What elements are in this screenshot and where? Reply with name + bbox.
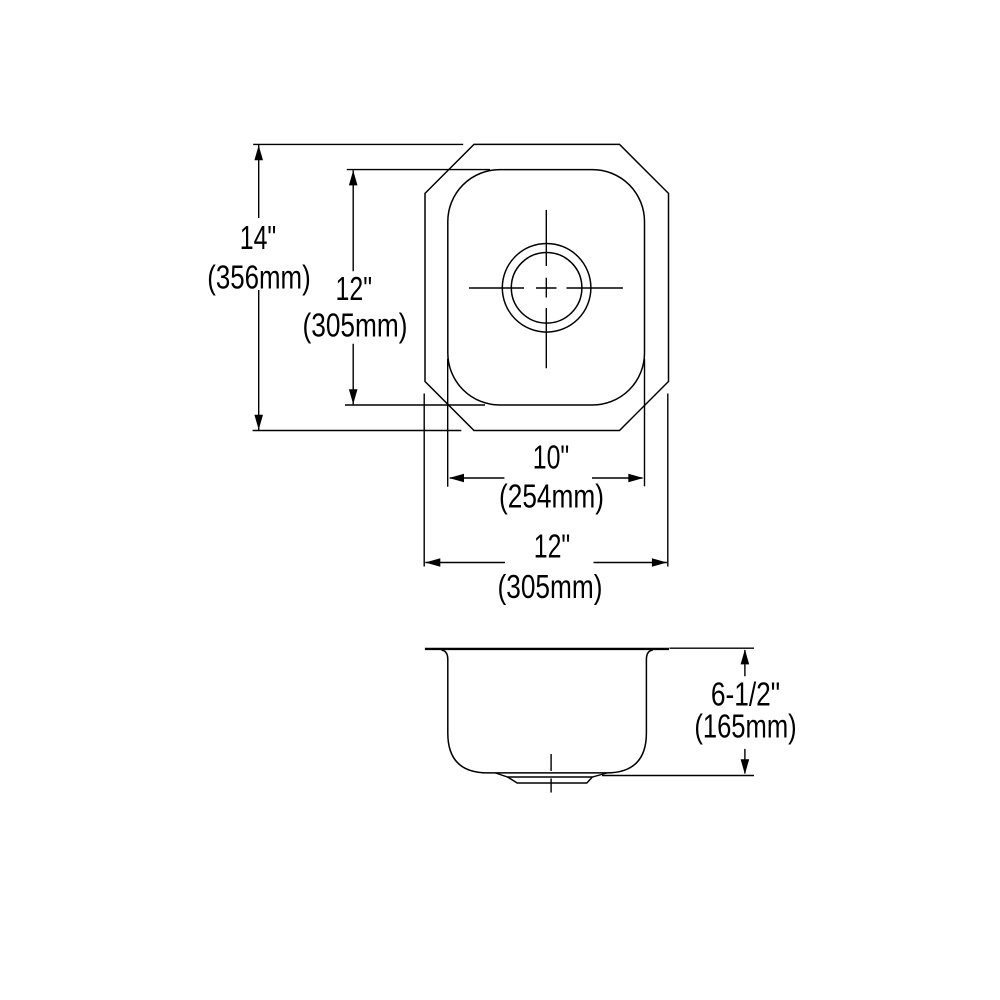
svg-text:12": 12" [336,270,373,307]
drain lip lower trapezoid (side view) [508,777,593,783]
drain outer circle [502,243,591,332]
drain vertical centerline [545,210,547,368]
12in bottom right extension line [667,394,669,567]
12in vertical top extension line [347,169,490,171]
12in bottom left arrowhead [425,558,440,567]
drain inner circle [511,252,582,323]
svg-text:(356mm): (356mm) [207,259,310,296]
svg-text:(165mm): (165mm) [694,708,796,745]
svg-text:14": 14" [240,219,277,256]
10in right arrowhead [628,474,643,483]
6-1/2in up arrowhead [741,649,750,664]
12in vertical dimension line [352,170,354,404]
side view bowl profile [442,650,653,773]
14in bottom extension line [253,430,462,432]
12in bottom dimension line [425,562,667,564]
10in left arrowhead [449,474,464,483]
svg-text:(305mm): (305mm) [303,306,408,343]
side view flange thick line [425,648,669,650]
6-1/2in dimension line [744,650,746,774]
12in bottom right arrowhead [652,558,667,567]
14in top extension line [253,143,463,145]
drain lip upper trapezoid (side view) [496,773,607,777]
drain centerline (side view) [550,754,552,793]
svg-text:10": 10" [533,438,570,475]
6-1/2in top extension line [670,647,755,649]
10in dimension line [450,477,643,479]
6-1/2in bottom extension line [602,775,754,777]
svg-text:(254mm): (254mm) [499,477,604,514]
10in right extension line [644,359,646,487]
14in bottom arrowhead [254,415,263,430]
14in dimension line [258,145,260,430]
12in vertical top arrowhead [349,170,358,185]
sink rim outer octagon (top view) [425,144,669,430]
6-1/2in down arrowhead [741,759,750,774]
12in vertical bottom arrowhead [349,389,358,404]
12in vertical bottom extension line [345,404,485,406]
14in top arrowhead [254,145,263,160]
10in left extension line [447,359,449,487]
svg-text:12": 12" [534,528,571,565]
12in bottom left extension line [423,394,425,567]
svg-text:(305mm): (305mm) [498,568,603,605]
drain horizontal centerline [469,287,623,289]
sink bowl rounded rectangle (top view) [448,170,645,405]
